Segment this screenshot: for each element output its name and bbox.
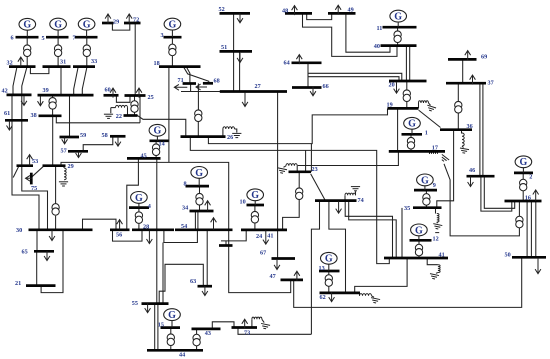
wire 57-58 xyxy=(83,136,113,151)
ground at 74 xyxy=(351,187,360,191)
bus 23 xyxy=(289,170,312,173)
svg-text:G: G xyxy=(325,254,333,265)
svg-text:56: 56 xyxy=(116,232,122,239)
bus 8 xyxy=(186,185,210,188)
bus 9 xyxy=(414,189,437,192)
svg-text:G: G xyxy=(394,12,402,23)
svg-text:49: 49 xyxy=(348,6,354,13)
wire 43-73 xyxy=(212,322,234,329)
bus 59 xyxy=(60,136,80,139)
load arrow down bus 67 xyxy=(274,259,280,270)
bus 58 xyxy=(110,135,126,138)
svg-text:13: 13 xyxy=(319,265,325,272)
svg-text:74: 74 xyxy=(358,197,364,204)
load arrow up bus 73 xyxy=(242,319,248,329)
wire 64-20 xyxy=(308,73,402,81)
transformer 10-24 xyxy=(251,211,258,223)
svg-text:65: 65 xyxy=(22,249,28,256)
svg-text:69: 69 xyxy=(481,54,487,61)
wire 51-27 b xyxy=(239,52,241,92)
svg-text:64: 64 xyxy=(284,60,290,67)
wire xfmr-40 stub xyxy=(397,42,399,45)
ground at 41 xyxy=(429,274,439,280)
wire 6-xfmr stub xyxy=(26,37,28,45)
wire 35-41 xyxy=(401,208,403,258)
ground at 35 xyxy=(432,224,442,230)
wire 54-xfmr-30 upper xyxy=(55,166,57,204)
bus 63 xyxy=(198,285,213,288)
svg-text:2: 2 xyxy=(529,174,532,181)
bus 2 xyxy=(514,172,533,175)
wire xfmr-35 stub xyxy=(425,205,427,208)
svg-text:54: 54 xyxy=(181,223,187,230)
wire xfmr-16 stub xyxy=(522,191,524,201)
generator G at bus 12 xyxy=(411,224,428,240)
wire 23-xfmr stub xyxy=(298,172,300,188)
wire 42-61-30 inner xyxy=(22,95,48,230)
svg-text:62: 62 xyxy=(320,294,326,301)
shunt coil at 19 xyxy=(419,101,429,103)
svg-text:45: 45 xyxy=(141,153,147,160)
svg-text:52: 52 xyxy=(219,6,225,13)
generator G at bus 14 xyxy=(149,124,166,140)
shunt 62 drop xyxy=(359,293,361,296)
wire xfmr-22 stub xyxy=(134,112,136,115)
wire 23 riser a xyxy=(305,150,307,171)
wire 74-41 b xyxy=(349,201,397,258)
wire 33-39 a xyxy=(74,67,79,95)
wire 38-54 left xyxy=(52,116,54,166)
bus 27 xyxy=(220,90,287,93)
svg-text:14: 14 xyxy=(159,141,165,148)
wire 45-55 xyxy=(156,159,158,304)
wire 25-xfmr stub xyxy=(134,96,136,101)
ground at 22 shunt xyxy=(104,114,113,118)
load arrow down bus 74 xyxy=(336,201,342,213)
svg-text:32: 32 xyxy=(7,60,13,67)
wire 50-47 long xyxy=(294,258,522,308)
svg-text:25: 25 xyxy=(148,94,154,101)
wire 30-65 xyxy=(36,230,38,251)
bus 5 xyxy=(46,36,69,39)
svg-text:66: 66 xyxy=(323,83,329,90)
load arrow down bus 20 xyxy=(394,82,400,93)
load arrow up bus 16 xyxy=(533,190,539,201)
wire 73 link xyxy=(238,328,311,335)
bus 3 xyxy=(164,36,182,39)
svg-text:43: 43 xyxy=(205,330,211,337)
generator G at bus 7 xyxy=(78,18,95,37)
wire xfmr-32 stub xyxy=(26,56,28,66)
svg-text:53: 53 xyxy=(32,158,38,165)
wire xfmr-44 stub a xyxy=(170,346,172,350)
wire 46-16 a xyxy=(481,176,512,211)
svg-text:42: 42 xyxy=(2,87,8,94)
svg-text:1: 1 xyxy=(425,130,428,137)
svg-text:G: G xyxy=(251,190,259,201)
transformer 1-17 xyxy=(407,137,414,149)
load arrow up bus 29 xyxy=(105,14,111,24)
transformer 5-31 xyxy=(54,45,61,57)
shunt 73 stem xyxy=(262,319,264,322)
wire 19-46 path xyxy=(208,109,387,144)
bus 50 xyxy=(512,256,546,259)
wire 2-xfmr stub xyxy=(522,173,524,179)
wire 74-41 a xyxy=(345,201,392,258)
wire 52-51 xyxy=(233,14,235,52)
shunt coil at 36 xyxy=(462,133,464,146)
svg-text:G: G xyxy=(135,193,143,204)
wire xfmr-24 stub xyxy=(254,223,256,230)
svg-text:11: 11 xyxy=(377,25,383,32)
load arrow down bus 66 xyxy=(310,86,316,96)
bus 4 xyxy=(129,206,149,209)
transformer 2-16 xyxy=(520,179,527,191)
bus 47 xyxy=(281,279,304,282)
wire 74-73 vert xyxy=(311,201,319,334)
svg-text:67: 67 xyxy=(260,250,266,257)
wire 66-20 xyxy=(308,77,399,81)
svg-text:G: G xyxy=(520,157,528,168)
wire xfmr-24 jog xyxy=(283,200,300,230)
load arrow down bus 46 xyxy=(468,177,474,187)
wire 37-46 b xyxy=(482,83,484,176)
bus 48 xyxy=(285,12,312,15)
transformer 43-44 xyxy=(193,334,200,346)
bus 43 xyxy=(192,328,221,331)
svg-text:41: 41 xyxy=(267,232,273,239)
load arrow up bus 25 xyxy=(136,88,142,98)
shunt 17 riser xyxy=(429,152,431,154)
svg-text:46: 46 xyxy=(469,167,475,174)
svg-text:47: 47 xyxy=(270,273,276,280)
wire 40-20 a xyxy=(405,46,407,81)
transformer 12-41 xyxy=(415,244,422,256)
bus 7 xyxy=(75,36,98,39)
svg-text:23: 23 xyxy=(312,166,318,173)
generator G at bus 8 xyxy=(191,167,208,187)
svg-text:21: 21 xyxy=(15,280,21,287)
bus 62 xyxy=(320,292,361,295)
generator G at bus 13 xyxy=(321,252,338,271)
bus 51 xyxy=(220,50,253,53)
load arrow up bus 34 xyxy=(205,201,211,211)
wire 4-xfmr stub xyxy=(138,208,140,212)
wire xfmr-26 stub xyxy=(197,121,199,136)
wire 46-16 b xyxy=(484,176,514,208)
transformer 7-33 xyxy=(83,45,90,57)
svg-text:26: 26 xyxy=(227,134,233,141)
svg-text:G: G xyxy=(421,175,429,186)
transformer 20-19 xyxy=(403,90,410,102)
bus 38 xyxy=(39,114,62,117)
svg-text:19: 19 xyxy=(387,102,393,109)
shunt 19 riser xyxy=(418,103,420,108)
load arrow left bus 68 xyxy=(196,84,207,90)
bus 57 xyxy=(68,150,88,153)
wire 43-xfmr stub xyxy=(196,329,198,334)
wire 9-xfmr stub xyxy=(425,190,427,193)
wire 16-xfmr stub xyxy=(518,201,520,216)
wire 22-26 link xyxy=(137,115,186,136)
wire xfmr-34 stub xyxy=(199,205,201,211)
svg-text:G: G xyxy=(415,225,423,236)
ground at 19 xyxy=(426,105,436,112)
svg-text:35: 35 xyxy=(404,205,410,212)
load arrow up bus 60 xyxy=(110,88,116,98)
svg-text:39: 39 xyxy=(43,87,49,94)
wire xfmr-38 stub xyxy=(52,109,54,116)
bus 74 xyxy=(315,199,357,202)
load arrow down bus 63 xyxy=(202,286,208,296)
wire 39-xfmr stub xyxy=(52,95,54,97)
bus 73 xyxy=(232,326,258,329)
wire 1-xfmr stub xyxy=(410,134,412,137)
svg-text:50: 50 xyxy=(505,252,511,259)
generator G at bus 1 xyxy=(404,117,421,134)
load arrow down bus 50 xyxy=(535,258,541,274)
svg-text:20: 20 xyxy=(389,82,395,89)
shunt 73 riser xyxy=(251,319,253,327)
wire xfmr-45 stub xyxy=(155,155,157,158)
transformer 54-30 xyxy=(52,204,59,216)
wire 34-54 a xyxy=(194,211,196,230)
transformer 17-16 xyxy=(516,216,523,228)
transformer 14-45 xyxy=(152,144,159,156)
wire 68-xfmr xyxy=(197,83,199,110)
generator G at bus 11 xyxy=(390,10,407,27)
bus 15 xyxy=(161,326,181,329)
svg-text:48: 48 xyxy=(282,7,288,14)
transformer 6-32 xyxy=(24,45,31,57)
svg-text:33: 33 xyxy=(91,58,97,65)
svg-text:34: 34 xyxy=(182,204,188,211)
wire 55-63 path xyxy=(159,264,203,303)
wire xfmr-36 stub xyxy=(457,113,459,130)
svg-text:57: 57 xyxy=(61,147,67,154)
wire xfmr-17 stub xyxy=(410,149,412,152)
wire 17-23coil link xyxy=(298,152,399,166)
wire 18-W1 riser xyxy=(168,67,170,163)
bus 21 xyxy=(26,284,56,287)
wire 11-xfmr stub xyxy=(397,27,399,31)
bus 65 xyxy=(34,250,54,253)
load arrow down bus 62 xyxy=(329,292,335,302)
svg-text:G: G xyxy=(168,310,176,321)
wire 48-49 U xyxy=(307,14,332,20)
load arrow left bus 71 xyxy=(174,84,187,90)
shunt 35 stem xyxy=(436,222,439,223)
wire 27 thin ext xyxy=(181,91,220,93)
svg-text:22: 22 xyxy=(116,113,122,120)
bus 22 xyxy=(124,114,138,117)
bus 36 xyxy=(440,128,472,131)
bus 32 xyxy=(9,65,36,68)
transformer 9-35 xyxy=(423,194,430,206)
svg-text:44: 44 xyxy=(179,352,185,359)
svg-text:6: 6 xyxy=(11,35,14,42)
svg-text:9: 9 xyxy=(433,182,436,189)
generator G at bus 9 xyxy=(417,174,434,190)
wire xfmr-44 stub b xyxy=(196,346,198,350)
transformer 37-36 xyxy=(455,101,462,113)
wire 28-54 U xyxy=(164,230,198,243)
svg-text:29: 29 xyxy=(113,19,119,26)
wire 64-66 xyxy=(307,63,309,88)
wire 18-68 xyxy=(183,67,208,84)
bus 1 xyxy=(402,133,423,136)
bus 75 xyxy=(30,173,33,185)
svg-text:5: 5 xyxy=(42,35,45,42)
wire 33-39 b xyxy=(82,67,87,95)
dash below bus 35 shunt xyxy=(435,232,439,234)
svg-text:38: 38 xyxy=(31,112,37,119)
svg-text:58: 58 xyxy=(102,132,108,139)
svg-text:75: 75 xyxy=(31,185,37,192)
bus 45 xyxy=(127,157,161,160)
transformer 39-38 xyxy=(49,98,56,110)
wire 74-62 xyxy=(329,201,346,293)
shunt 23 stem xyxy=(284,166,287,168)
svg-text:G: G xyxy=(408,119,416,130)
wire 15-xfmr stub xyxy=(170,328,172,334)
load arrow up bus 48 xyxy=(292,6,298,16)
svg-text:61: 61 xyxy=(4,110,10,117)
svg-text:G: G xyxy=(195,168,203,179)
bus 53 xyxy=(17,164,34,167)
generator G at bus 2 xyxy=(515,156,532,173)
wire xfmr-18 stub xyxy=(171,56,173,67)
wire 19-36 diag xyxy=(419,110,441,127)
wire 72-25 xyxy=(134,23,136,95)
svg-text:40: 40 xyxy=(374,43,380,50)
shunt 41 jog xyxy=(427,258,438,265)
wire 69-37 xyxy=(462,60,464,84)
transformer 3-18 xyxy=(169,44,176,56)
bus 64 xyxy=(292,61,322,64)
shunt coil at 62 xyxy=(360,294,372,296)
wire 42-61-30 outer xyxy=(12,95,39,230)
load arrow down bus 30 xyxy=(49,230,55,241)
svg-text:4: 4 xyxy=(148,203,151,210)
wire 16-50 b xyxy=(530,201,532,257)
ground at 73 xyxy=(260,323,270,329)
transformer 8-34 xyxy=(196,193,203,205)
wire 37-xfmr xyxy=(457,83,459,101)
shunt coil at 54 xyxy=(64,168,66,180)
bus 67 xyxy=(272,257,296,260)
svg-text:60: 60 xyxy=(105,86,111,93)
wire 48-40 xyxy=(303,14,398,57)
svg-text:G: G xyxy=(154,126,162,137)
bus 13 xyxy=(319,270,340,273)
shunt 26 drop xyxy=(235,129,237,133)
wire 36-35 xyxy=(437,130,454,208)
svg-text:7: 7 xyxy=(73,35,76,42)
bus 44 xyxy=(147,349,203,352)
wire xfmr-19 stub xyxy=(406,102,408,109)
generator G at bus 15 xyxy=(164,309,181,328)
bus 28 xyxy=(132,228,174,231)
wire 32-42 b xyxy=(22,67,27,95)
wire 71-27 riser xyxy=(190,84,192,92)
stub bus below 24 xyxy=(219,244,233,247)
bus 20 xyxy=(389,80,427,83)
transformer 15-44 xyxy=(167,334,174,346)
bus 61 xyxy=(5,119,28,122)
bus 56 xyxy=(110,228,130,231)
bus 29 xyxy=(102,22,114,25)
transformer 11-40 xyxy=(394,31,401,43)
transformer 25-22 xyxy=(131,101,138,113)
svg-text:16: 16 xyxy=(525,195,531,202)
svg-text:51: 51 xyxy=(221,44,227,51)
bus 17 xyxy=(389,150,445,153)
wire xfmr-41 stub xyxy=(418,256,420,258)
wire 14-xfmr stub xyxy=(155,141,157,144)
load arrow down bus 57 xyxy=(76,152,82,158)
svg-text:71: 71 xyxy=(178,77,184,84)
wire 38 right jog xyxy=(56,116,140,123)
wire G3-3 xfmr stub xyxy=(171,37,173,44)
shunt 23 drop xyxy=(296,166,298,172)
bus 26 xyxy=(181,135,226,138)
bus 41 xyxy=(384,257,448,260)
bus 35 xyxy=(413,206,442,209)
transformer 23-24 xyxy=(296,188,303,200)
shunt 19 stem xyxy=(429,103,431,105)
wire xfmr-31 stub xyxy=(57,56,59,66)
svg-text:12: 12 xyxy=(433,235,439,242)
wire 19-17 xyxy=(397,109,399,152)
svg-text:63: 63 xyxy=(190,278,196,285)
bus 30 xyxy=(29,228,93,231)
wire 30-56 xyxy=(83,219,117,230)
bus 25 xyxy=(125,94,146,97)
shunt 22 left leg xyxy=(111,107,116,109)
wire 56-28 U xyxy=(113,230,143,241)
load arrow left bus 75 xyxy=(26,175,33,181)
generator G at bus 5 xyxy=(50,18,67,37)
wire 5-xfmr stub xyxy=(57,37,59,45)
svg-text:G: G xyxy=(83,20,91,31)
wire small bar stub xyxy=(225,241,227,245)
load arrow up bus 53 xyxy=(27,155,33,166)
wire 20-xfmr stub xyxy=(406,81,408,90)
wire 45-56 jog xyxy=(127,159,139,230)
bus 37 xyxy=(446,82,486,85)
load arrow up bus 37 xyxy=(470,75,476,85)
wire 40-20 b xyxy=(409,46,411,81)
shunt coil at 26 xyxy=(223,127,235,129)
bus 18 xyxy=(159,65,201,68)
ground at 62 xyxy=(370,298,380,304)
wire 16-50 c xyxy=(535,201,537,257)
load arrow down bus 27 xyxy=(242,93,248,107)
wire 31-39 xyxy=(60,67,62,95)
load arrow up bus 49 xyxy=(335,5,341,15)
bus 10 xyxy=(247,204,265,207)
ground at 54 xyxy=(59,182,68,186)
svg-text:73: 73 xyxy=(244,330,250,337)
shunt coil at 23 xyxy=(286,164,297,166)
load arrow down bus 28 xyxy=(147,231,153,244)
load arrow down bus 61 xyxy=(7,121,13,131)
shunt 22 riser xyxy=(127,108,129,116)
bus 33 xyxy=(73,65,95,68)
wire 28U-55 xyxy=(162,243,164,304)
load arrow down bus 24 xyxy=(263,230,269,244)
